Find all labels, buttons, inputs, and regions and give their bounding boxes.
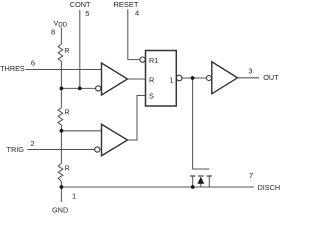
- resistor R (middle): [58, 108, 63, 125]
- svg-text:R1: R1: [149, 56, 158, 65]
- wire divider reference to comparator 1: [61, 87, 95, 89]
- bubble buffer input: [206, 76, 211, 81]
- bubble latch R1 input: [140, 57, 145, 62]
- wire bottom rail to DISCH: [61, 186, 254, 188]
- svg-text:RESET: RESET: [114, 0, 139, 9]
- wire VDD stub: [60, 28, 62, 45]
- wire rail THRES-to-divider: [60, 61, 62, 108]
- junction node CONT: [78, 87, 82, 91]
- transistor Q1 drain contact bar: [207, 175, 212, 177]
- op-amp comparator 2: [102, 124, 128, 155]
- wire TRIG: [27, 149, 94, 151]
- svg-text:4: 4: [135, 9, 139, 18]
- svg-text:7: 7: [249, 171, 253, 180]
- svg-text:DISCH: DISCH: [258, 183, 281, 192]
- transistor Q1 source contact bar: [190, 175, 195, 177]
- wire OUT: [238, 77, 260, 79]
- svg-text:1: 1: [72, 192, 76, 201]
- wire latch output to transistor gate: [193, 78, 210, 169]
- svg-text:8: 8: [51, 28, 55, 37]
- svg-text:S: S: [149, 92, 154, 101]
- resistor R (top): [58, 44, 63, 61]
- junction node GND rail: [60, 185, 64, 189]
- svg-text:3: 3: [248, 67, 252, 76]
- bubble comparator1 inverting input: [96, 86, 101, 91]
- svg-text:GND: GND: [52, 206, 68, 215]
- junction node divider ref 1: [60, 87, 64, 91]
- wire comparator2 output to latch S: [128, 96, 146, 141]
- svg-text:5: 5: [85, 9, 89, 18]
- svg-text:OUT: OUT: [263, 73, 279, 82]
- wire CONT vertical: [79, 10, 81, 88]
- wire rail to GND node: [60, 182, 62, 188]
- wire GND stub: [60, 187, 62, 202]
- svg-text:THRES: THRES: [0, 64, 25, 73]
- svg-text:1: 1: [170, 76, 174, 85]
- svg-text:2: 2: [31, 139, 35, 148]
- junction node latch output: [191, 76, 195, 80]
- svg-text:TRIG: TRIG: [7, 145, 25, 154]
- svg-text:R: R: [65, 109, 70, 116]
- wire divider reference to comparator 2: [61, 130, 101, 132]
- bubble latch output: [176, 75, 182, 81]
- bubble comparator2 inverting input: [95, 147, 100, 152]
- wire THRES: [25, 69, 101, 71]
- op-amp comparator 1: [102, 63, 128, 95]
- output buffer U2: [212, 62, 238, 94]
- wire comparator1 output to latch R: [128, 78, 146, 80]
- svg-text:R: R: [65, 165, 70, 172]
- latch U1 box: [146, 51, 177, 107]
- transistor Q1 drain stub: [208, 177, 210, 188]
- svg-text:R: R: [149, 75, 154, 84]
- transistor Q1 body arrow: [197, 177, 204, 184]
- junction node transistor source: [191, 185, 195, 189]
- svg-text:CONT: CONT: [70, 0, 91, 9]
- svg-text:R: R: [65, 48, 70, 55]
- junction node divider ref 2: [60, 129, 64, 133]
- resistor R (bottom): [58, 164, 63, 182]
- transistor Q1 source stub: [192, 177, 194, 188]
- svg-text:6: 6: [31, 59, 35, 68]
- wire latch output to buffer: [182, 77, 206, 79]
- transistor Q1 body stub: [200, 183, 202, 187]
- wire RESET vertical: [128, 9, 140, 59]
- wire rail middle: [60, 125, 62, 163]
- transistor Q1 body contact bar: [198, 175, 204, 177]
